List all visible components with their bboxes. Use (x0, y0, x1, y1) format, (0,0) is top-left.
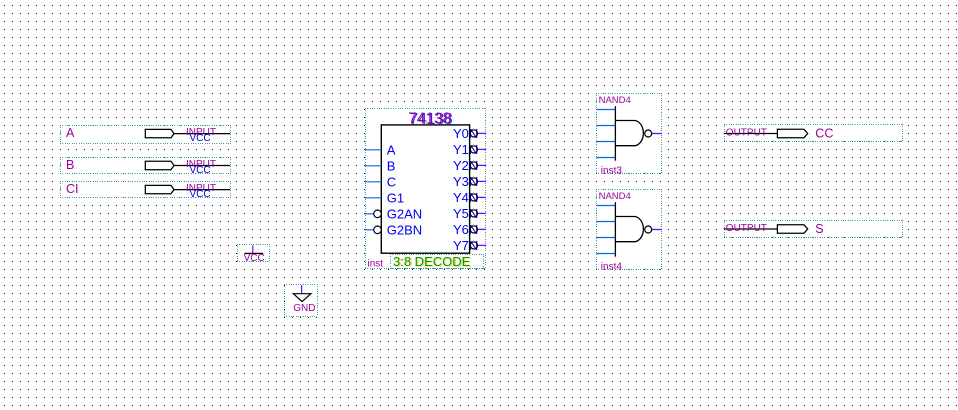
svg-text:B: B (66, 158, 74, 172)
svg-text:S: S (815, 222, 823, 236)
svg-text:G2AN: G2AN (387, 207, 422, 222)
svg-text:3:8 DECODE: 3:8 DECODE (393, 254, 471, 269)
svg-text:Y2N: Y2N (453, 158, 478, 173)
svg-text:C: C (387, 175, 396, 190)
svg-text:Y5N: Y5N (453, 206, 478, 221)
svg-text:B: B (387, 159, 396, 174)
svg-text:CC: CC (815, 126, 833, 140)
svg-text:VCC: VCC (189, 189, 210, 200)
svg-text:VCC: VCC (244, 253, 265, 264)
svg-text:OUTPUT: OUTPUT (726, 128, 767, 139)
svg-text:NAND4: NAND4 (599, 191, 631, 202)
svg-text:CI: CI (66, 182, 79, 196)
svg-text:inst4: inst4 (601, 261, 623, 272)
svg-text:NAND4: NAND4 (599, 95, 631, 106)
svg-text:A: A (66, 126, 75, 140)
svg-text:A: A (387, 143, 396, 158)
svg-text:Y4N: Y4N (453, 190, 478, 205)
svg-text:Y3N: Y3N (453, 174, 478, 189)
svg-text:G2BN: G2BN (387, 223, 422, 238)
svg-text:Y0N: Y0N (453, 126, 478, 141)
svg-text:GND: GND (293, 303, 315, 314)
svg-text:VCC: VCC (189, 165, 210, 176)
svg-text:Y1N: Y1N (453, 142, 478, 157)
svg-text:inst: inst (368, 259, 384, 270)
svg-text:G1: G1 (387, 191, 404, 206)
svg-text:Y6N: Y6N (453, 222, 478, 237)
svg-text:Y7N: Y7N (453, 238, 478, 253)
svg-text:inst3: inst3 (601, 165, 623, 176)
svg-text:OUTPUT: OUTPUT (726, 223, 767, 234)
svg-text:VCC: VCC (189, 133, 210, 144)
